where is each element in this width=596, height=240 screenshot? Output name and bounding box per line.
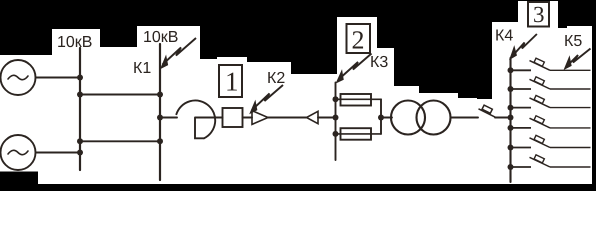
junction switchboard feeder 6 <box>508 164 514 170</box>
cable line <box>268 117 307 119</box>
fuse group vertical bus <box>335 83 337 161</box>
junction bus1-G1 <box>77 75 83 81</box>
fault arrow K4 <box>510 34 537 59</box>
svg-text:К4: К4 <box>495 27 513 44</box>
svg-text:3: 3 <box>533 2 545 27</box>
svg-text:К2: К2 <box>267 70 285 87</box>
fuse FU1 branch wire <box>336 98 382 100</box>
svg-text:10кВ: 10кВ <box>143 29 178 46</box>
fault arrow K1 <box>161 38 196 68</box>
junction switchboard input <box>508 115 514 121</box>
automat QF2 (feeder 2) <box>511 77 591 89</box>
wire transformer to input switch <box>451 117 479 119</box>
junction switchboard feeder 4 <box>508 125 514 131</box>
switchboard 0.4kV bus <box>509 58 511 182</box>
wire cable to fuse bus <box>318 117 336 119</box>
junction switchboard feeder 3 <box>508 105 514 111</box>
junction bus2 reactor feeder <box>157 115 163 121</box>
svg-text:К1: К1 <box>133 60 151 77</box>
fault arrow K3 <box>337 54 372 83</box>
numbered box 2 <box>347 24 371 55</box>
generator G2 <box>1 135 36 170</box>
junction switchboard feeder 1 <box>508 67 514 73</box>
junction fuse output <box>378 115 384 121</box>
circuit breaker Q1 (square) <box>223 108 243 127</box>
busbar 2 (10kV) <box>159 44 161 180</box>
automat QF4 (feeder 4) <box>511 116 591 128</box>
reactor LR center leads <box>195 118 223 139</box>
junction bus2 upper tie <box>157 92 163 98</box>
automat QF6 (feeder 6) <box>511 155 591 167</box>
junction fuse bus FU1 <box>333 96 339 102</box>
junction switchboard feeder 5 <box>508 145 514 151</box>
input automat QF0 blade <box>479 105 496 117</box>
generator G1 tilde <box>8 75 28 79</box>
junction fuse bus FU2 <box>333 131 339 137</box>
fuse group right vertical <box>380 99 382 134</box>
fuse FU2 <box>341 128 372 140</box>
wire bus1-bus2 lower tie <box>80 140 160 142</box>
svg-text:К5: К5 <box>564 33 582 50</box>
junction bus2 lower tie <box>157 138 163 144</box>
svg-text:К3: К3 <box>370 54 388 71</box>
black scan border mask (bottom strip) <box>0 172 596 192</box>
wire G2 to bus1 <box>36 152 81 154</box>
transformer T1 primary winding <box>391 101 425 135</box>
fuse FU1 <box>341 94 372 106</box>
busbar 1 (10kV) <box>79 48 81 170</box>
generator G2 tilde <box>8 150 28 154</box>
junction switchboard feeder 2 <box>508 86 514 92</box>
automat QF1 (feeder 1) <box>511 58 591 70</box>
wire input switch to switchboard bus <box>495 117 511 119</box>
svg-text:10кВ: 10кВ <box>57 34 92 51</box>
svg-text:2: 2 <box>352 26 365 55</box>
wire fuses to transformer <box>381 117 392 119</box>
fault arrow K2 <box>250 85 283 113</box>
fault arrow K5 <box>565 49 591 70</box>
junction fuse bus main <box>333 115 339 121</box>
black scan border mask (top profile) <box>0 0 596 191</box>
wire G1 to bus1 <box>36 77 81 79</box>
junction bus1 upper tie <box>77 92 83 98</box>
wire Q1 to cable termination <box>243 117 253 119</box>
cable termination left <box>252 111 268 125</box>
fuse FU2 branch wire <box>336 133 382 135</box>
junction bus1 lower tie <box>77 138 83 144</box>
wire bus1-bus2 upper tie <box>80 94 160 96</box>
cable termination right <box>307 111 319 123</box>
wire bus2 to reactor <box>160 117 177 119</box>
transformer T1 secondary winding <box>417 101 451 135</box>
numbered box 3 <box>528 2 549 27</box>
automat QF3 (feeder 3) <box>511 95 591 107</box>
generator G1 <box>1 60 36 95</box>
numbered box 1 <box>219 65 242 97</box>
junction bus1-G2 <box>77 150 83 156</box>
reactor LR arc <box>176 100 215 138</box>
automat QF5 (feeder 5) <box>511 135 591 147</box>
paper background <box>0 0 596 191</box>
svg-text:1: 1 <box>225 67 239 97</box>
